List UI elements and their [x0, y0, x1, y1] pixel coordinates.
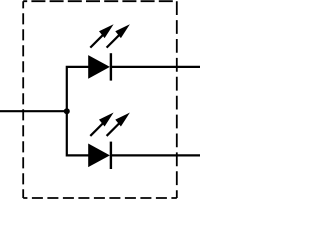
LED D2 cathode bar — [110, 142, 112, 169]
wire: LED D2 to right edge — [111, 154, 200, 156]
LED D1 cathode bar — [110, 53, 112, 80]
LED D2 light arrow 1 shaft — [90, 123, 103, 136]
wire: junction to top branch elbow — [67, 67, 89, 111]
LED D2 light arrow 1 head — [99, 113, 114, 127]
LED D1 light arrow 2 head — [115, 24, 130, 38]
wire: junction to bottom branch elbow — [67, 111, 89, 155]
LED D2 light arrow 2 shaft — [107, 123, 120, 136]
LED D2 anode triangle — [88, 144, 110, 168]
LED D1 anode triangle — [88, 55, 110, 79]
LED D2 light arrow 2 head — [115, 113, 130, 127]
input wire — [0, 110, 67, 112]
LED D1 light arrow 1 head — [99, 24, 114, 38]
LED D1 light arrow 2 shaft — [107, 34, 120, 47]
dashed enclosure box — [23, 1, 177, 198]
junction node — [64, 108, 70, 114]
LED D1 light arrow 1 shaft — [90, 34, 103, 47]
wire: LED D1 to right edge — [111, 66, 200, 68]
